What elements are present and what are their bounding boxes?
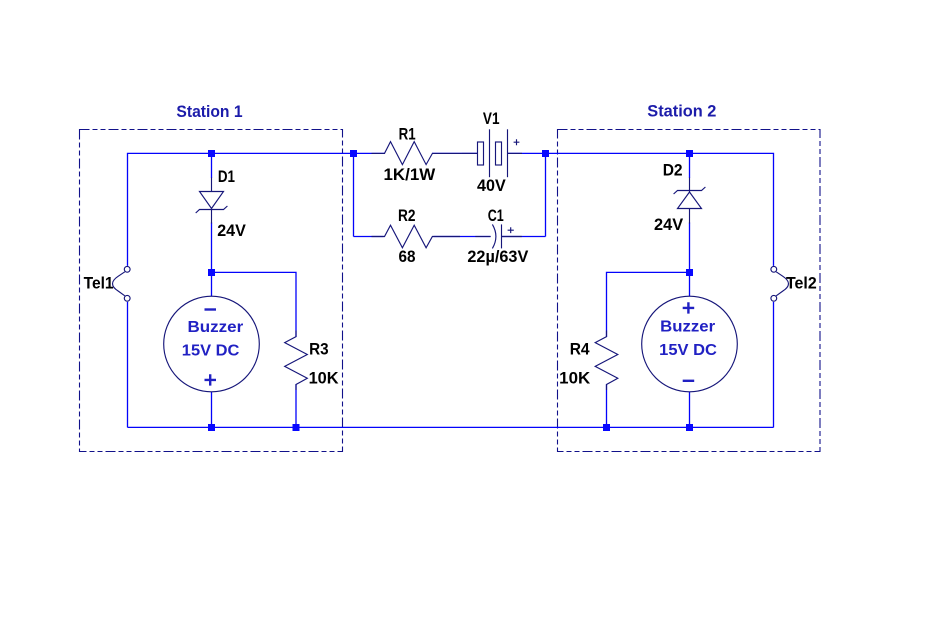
capacitor C1 [475,224,522,248]
svg-text:1K/1W: 1K/1W [384,166,436,184]
svg-text:Buzzer: Buzzer [188,319,244,336]
wire C1 to right riser [502,236,546,238]
zener diode D1 [196,178,228,224]
battery V1 [462,129,522,177]
wire buzzer 1 top stub [211,272,213,296]
svg-text:Station 1: Station 1 [176,102,242,121]
wire D2 bottom to node F [689,223,691,273]
wire D1 top lead connection [211,153,213,178]
svg-text:24V: 24V [217,222,246,240]
wire node F branch to R4 top [607,272,690,337]
wire buzzer 2 top stub [689,272,691,296]
svg-text:Station 2: Station 2 [647,101,716,120]
resistor R1 [372,142,462,165]
wire R1 to V1 [432,152,478,154]
wire D2 top lead connection [689,153,691,178]
resistor R4 [595,331,618,391]
zener diode D2 [674,178,706,224]
wire top rail station 1 (Tel1 top up and across to node B) [128,153,354,266]
station 1 boundary box [80,130,343,452]
wire Tel2 bottom to bottom rail [773,302,775,428]
svg-text:10K: 10K [559,369,590,387]
svg-text:R4: R4 [570,340,591,358]
node E junction D1/buzzer1/R3 [208,269,215,276]
svg-text:Buzzer: Buzzer [660,318,715,335]
svg-text:D2: D2 [663,162,683,180]
svg-text:Tel1: Tel1 [84,274,114,292]
buzzer BZ1 [164,296,260,392]
buzzer 1 minus sign [205,308,217,310]
wire bottom rail [128,426,774,428]
svg-text:R1: R1 [399,125,416,143]
wire R2 to C1 [434,236,491,238]
wire node B down to R2 branch [353,153,355,236]
wire R2 branch lower left [354,236,384,238]
node junction top rail at D2 [686,150,693,157]
wire right riser up to node C [545,153,547,236]
svg-text:V1: V1 [483,110,500,128]
svg-text:10K: 10K [309,369,339,387]
buzzer 1 plus sign [205,374,217,385]
svg-text:40V: 40V [477,177,506,195]
resistor R2 [372,225,461,248]
station 2 boundary box [558,130,821,452]
wire node B to R1 [354,152,386,154]
wire D1 bottom to node E [211,223,213,273]
buzzer BZ2 [642,296,738,392]
svg-text:Tel2: Tel2 [786,274,817,292]
wire node E branch to R3 top [212,272,297,337]
node junction top rail at D1 [208,150,215,157]
wire Tel1 bottom to bottom rail [127,302,129,428]
resistor R3 [285,331,308,391]
wire R4 bottom to bottom rail [606,384,608,427]
svg-text:15V DC: 15V DC [659,342,717,359]
wire R3 bottom to bottom rail [295,384,297,427]
svg-text:24V: 24V [654,216,683,234]
node C junction right of V1 [542,150,549,157]
buzzer 2 plus sign [683,302,695,313]
wire V1 to node C [508,152,546,154]
node B junction left of R1 [350,150,357,157]
node junction bottom rail at buzzer 2 [686,424,693,431]
wire top rail station 2 (node C to Tel2 top) [546,153,774,266]
svg-text:15V DC: 15V DC [182,343,240,360]
wire buzzer 2 bottom stub [689,392,691,428]
svg-text:R3: R3 [309,340,329,358]
phone jack Tel1 [113,266,131,301]
svg-text:C1: C1 [488,207,504,225]
wire buzzer 1 bottom stub [211,392,213,428]
phone jack Tel2 [771,266,789,301]
buzzer 2 minus sign [683,380,695,382]
svg-text:D1: D1 [218,168,235,186]
node junction bottom rail at R4 [603,424,610,431]
node junction bottom rail at buzzer 1 [208,424,215,431]
node junction bottom rail at R3 [293,424,300,431]
svg-text:22µ/63V: 22µ/63V [467,248,528,266]
svg-text:R2: R2 [398,207,416,225]
svg-text:68: 68 [399,248,416,266]
node F junction D2/buzzer2/R4 [686,269,693,276]
